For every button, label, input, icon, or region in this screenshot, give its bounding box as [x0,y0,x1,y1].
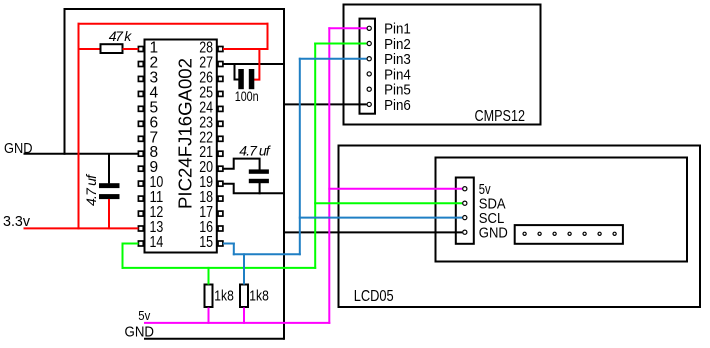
wire resistor R3 bottom lead to 5v [243,308,245,324]
LCD05 connector outline [456,178,474,244]
svg-text:Pin6: Pin6 [384,97,411,114]
svg-text:GND: GND [4,141,33,157]
wire GND bottom rail [144,338,285,340]
wire GND frame top rail [64,8,285,10]
CMPS12 module outline [344,5,541,125]
wire GND riser to CMPS12 Pin6 [284,103,367,105]
wire 3.3v top rail [78,23,269,25]
wire 5v to LCD05 5v pin [328,188,462,190]
svg-text:1k8: 1k8 [214,288,234,305]
wire 3.3v horizontal to pin 13 [24,227,139,229]
wire SCL riser [299,58,301,256]
svg-text:CMPS12: CMPS12 [475,108,526,125]
svg-text:25: 25 [199,84,213,101]
wire SCL branch to resistor R3 [243,253,245,284]
wire 5v riser to CMPS12 Pin1 [328,27,330,324]
svg-text:5v: 5v [138,308,150,323]
svg-text:1k8: 1k8 [249,288,268,305]
svg-text:GND: GND [125,324,155,340]
wire SDA left drop [122,243,124,269]
wire 5v bottom rail [144,322,330,324]
wire GND main vertical riser [283,8,285,340]
svg-text:PIC24FJ16GA002: PIC24FJ16GA002 [175,58,196,209]
CMPS12 pin circles Pin1-Pin6 [367,26,371,30]
svg-text:21: 21 [199,144,213,161]
wire 3.3v right drop to pin 28 line [267,23,269,50]
capacitor C2 100n plates [238,69,244,89]
wire 3.3v to resistor R1 [79,48,100,50]
LCD05 inner board outline [436,158,688,262]
svg-text:4.7 uf: 4.7 uf [239,143,272,159]
wire SCL to LCD05 SCL pin [299,217,462,219]
svg-text:17: 17 [199,204,213,221]
wire pin 15 SCL segment [223,243,235,245]
resistor R2 1k8 body [205,285,213,308]
svg-text:26: 26 [199,69,213,86]
svg-text:23: 23 [199,114,213,131]
wire GND frame left vertical [64,8,66,155]
LCD05 module outline [339,146,701,308]
op-amp U1 PIC24FJ16GA002 body [145,40,217,253]
wire pin 28 to 3.3v [223,48,269,50]
wire GND riser to LCD05 GND pin [284,231,463,233]
svg-text:4.7 uf: 4.7 uf [83,173,99,206]
svg-text:LCD05: LCD05 [354,288,394,305]
wire 3.3v left riser [78,23,80,230]
wire 3.3v branch to capacitor C2 100n [254,49,260,80]
wire SCL drop [233,243,235,256]
resistor R1 47k body [101,44,123,53]
wire SCL to CMPS12 Pin3 [299,58,367,60]
wire pin 19 to GND riser [223,184,285,194]
wire 5v to CMPS12 Pin1 [328,27,366,29]
wire resistor R2 bottom lead to 5v [208,308,210,324]
svg-text:GND: GND [479,225,508,242]
wire SDA to LCD05 SDA pin [314,202,462,204]
wire pin 14 SDA left segment [122,243,139,245]
wire capacitor C1 bottom lead to 3.3v line [108,199,110,229]
svg-text:27: 27 [199,54,213,71]
wire GND horizontal to pin 8 [24,153,139,155]
wire capacitor C3 bottom lead [259,183,261,195]
wire SDA to CMPS12 Pin2 [314,43,366,45]
svg-text:3.3v: 3.3v [3,214,31,230]
wire SDA riser [314,43,316,269]
wire SDA bottom horizontal [122,267,317,269]
resistor R3 1k8 body [240,285,248,308]
svg-text:18: 18 [199,189,213,206]
svg-text:15: 15 [199,234,213,251]
LCD05 horizontal connector outline [515,225,623,244]
svg-text:22: 22 [199,129,213,146]
U1 right pin stubs 15-28 [218,241,223,246]
wire pin 27 to GND riser [223,63,285,65]
LCD05 horizontal connector pin circles [523,232,526,235]
svg-text:47 k: 47 k [109,28,133,44]
U1 left pin stubs 1-14 [138,47,143,52]
svg-text:28: 28 [199,40,213,57]
wire resistor R1 to pin 1 [123,48,139,50]
wire SDA branch to resistor R2 [208,267,210,285]
wire capacitor C2 left lead to pin 27 line [235,63,239,80]
svg-text:16: 16 [199,219,213,236]
svg-text:100n: 100n [235,88,259,104]
wire SCL bottom horizontal [233,253,301,255]
LCD05 pin circles [463,187,467,191]
CMPS12 connector outline [360,19,376,114]
wire capacitor C1 top lead to GND line [108,154,110,184]
wire pin 20 to capacitor C3 [223,159,260,170]
capacitor C1 4.7uf plates [99,183,120,188]
svg-text:14: 14 [150,234,164,251]
svg-text:20: 20 [199,159,213,176]
svg-text:24: 24 [199,99,213,116]
capacitor C3 4.7uf plates [249,169,269,173]
svg-text:19: 19 [199,174,213,191]
